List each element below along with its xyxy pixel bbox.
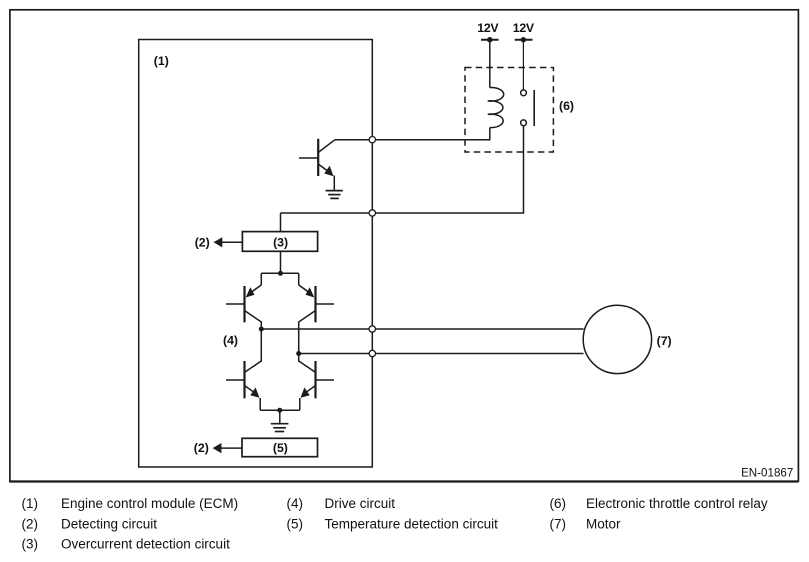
svg-text:(7): (7) — [657, 334, 672, 348]
svg-text:(4): (4) — [287, 496, 304, 511]
wire motor line 2 — [299, 353, 584, 355]
svg-text:Engine control module (ECM): Engine control module (ECM) — [61, 496, 238, 511]
svg-text:(1): (1) — [22, 496, 39, 511]
arrow to (2) from box (3) — [219, 241, 242, 243]
H-bridge bottom rail — [260, 409, 300, 411]
node dot left at y329 — [259, 327, 264, 332]
relay switch contact S1 — [521, 90, 527, 96]
svg-text:(2): (2) — [22, 517, 39, 532]
svg-text:(5): (5) — [287, 517, 304, 532]
transistor Q1 emitter with arrow — [318, 164, 329, 172]
svg-text:(6): (6) — [550, 496, 567, 511]
svg-text:Electronic throttle control re: Electronic throttle control relay — [586, 496, 768, 511]
node pin circle at y213 on ECM edge — [369, 210, 375, 216]
transistor Q1 base bar — [317, 139, 319, 176]
relay coil L1 — [488, 88, 504, 128]
bottom node dot — [277, 408, 282, 413]
wire box(3) to H-bridge top node — [280, 251, 282, 273]
H-bridge top node dot — [278, 271, 283, 276]
svg-text:(2): (2) — [195, 236, 210, 250]
svg-text:Temperature detection circuit: Temperature detection circuit — [325, 517, 499, 532]
12V supply terminal right — [515, 39, 533, 41]
ECM box U1 — [139, 40, 373, 468]
transistor Q4 (bottom-left) — [226, 329, 261, 410]
svg-text:EN-01867: EN-01867 — [741, 467, 793, 480]
ground G2 — [271, 424, 289, 432]
svg-text:(6): (6) — [559, 99, 574, 113]
node pin circle at y329 on ECM edge — [369, 326, 375, 332]
wire to ground G2 — [279, 410, 281, 423]
svg-text:12V: 12V — [477, 21, 499, 35]
transistor Q1 collector — [318, 140, 335, 153]
svg-text:(3): (3) — [273, 236, 288, 250]
svg-text:Drive circuit: Drive circuit — [325, 496, 396, 511]
transistor Q2 (top-left) — [226, 273, 261, 329]
svg-text:(7): (7) — [550, 517, 567, 532]
svg-text:Overcurrent detection circuit: Overcurrent detection circuit — [61, 537, 230, 552]
node pin circle at y140 on ECM edge — [369, 137, 375, 143]
svg-text:(1): (1) — [154, 54, 169, 68]
node pin circle at y353.5 on ECM edge — [369, 350, 375, 356]
svg-text:12V: 12V — [513, 21, 535, 35]
node dot right at y353.5 — [296, 351, 301, 356]
box (3) overcurrent detection — [242, 232, 317, 252]
box (5) temperature detection — [242, 438, 318, 456]
svg-text:(2): (2) — [194, 441, 209, 455]
wire Q1 emitter to ground — [333, 176, 335, 191]
ground G1 — [326, 191, 343, 199]
svg-text:Motor: Motor — [586, 517, 621, 532]
12V supply terminal left — [481, 39, 499, 41]
wire down to box (3) — [280, 213, 282, 232]
svg-text:(5): (5) — [273, 441, 288, 455]
wire coil bottom to transistor collector rail — [335, 128, 490, 140]
wire 12V right to relay switch top — [522, 40, 524, 90]
transistor Q3 (top-right) — [299, 273, 334, 353]
motor M1 circle — [583, 305, 651, 373]
svg-text:(3): (3) — [22, 537, 39, 552]
svg-text:Detecting circuit: Detecting circuit — [61, 517, 157, 532]
arrow to (2) from box (5) — [218, 447, 242, 449]
H-bridge top rail — [261, 272, 298, 274]
wire switch bottom down and left to node rail y213 — [281, 126, 524, 213]
wire motor line 1 — [261, 328, 583, 330]
relay switch bar — [533, 90, 535, 126]
svg-text:(4): (4) — [223, 334, 238, 348]
wire 12V left to relay coil top — [489, 40, 491, 88]
transistor Q1 base lead — [299, 157, 318, 159]
transistor Q5 (bottom-right) — [299, 354, 334, 411]
relay box (6) dashed — [465, 68, 553, 153]
